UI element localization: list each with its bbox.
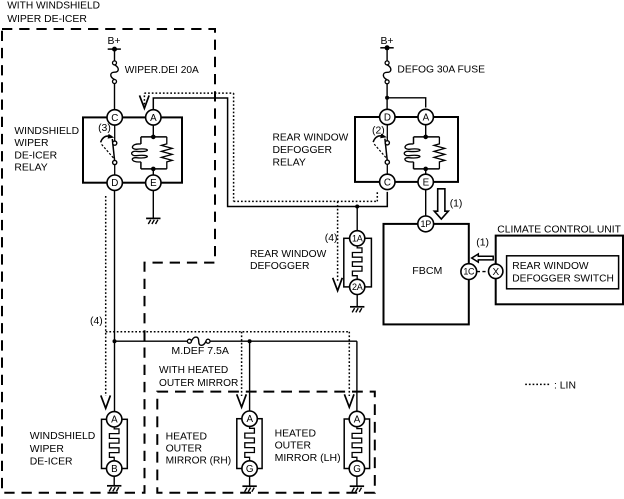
svg-text:B+: B+ [108, 36, 121, 47]
svg-text:G: G [246, 464, 253, 475]
svg-text:(1): (1) [476, 238, 489, 249]
svg-text:(3): (3) [98, 123, 111, 134]
svg-text:A: A [150, 113, 157, 124]
svg-text:1P: 1P [420, 219, 431, 229]
svg-text:WIPER: WIPER [14, 138, 49, 149]
svg-text:C: C [111, 113, 118, 124]
svg-text:MIRROR (RH): MIRROR (RH) [166, 456, 232, 467]
svg-text:1A: 1A [352, 233, 363, 243]
svg-text:A: A [111, 415, 118, 426]
svg-text:DE-ICER: DE-ICER [30, 456, 73, 467]
svg-text:WINDSHIELD: WINDSHIELD [30, 431, 96, 442]
svg-text:G: G [353, 464, 360, 475]
svg-text:DE-ICER: DE-ICER [14, 150, 57, 161]
svg-text:REAR WINDOW: REAR WINDOW [273, 133, 349, 144]
svg-text:C: C [384, 177, 391, 188]
svg-text:DEFOGGER: DEFOGGER [250, 261, 310, 272]
svg-text:WINDSHIELD: WINDSHIELD [14, 126, 79, 137]
svg-text:(4): (4) [90, 316, 103, 327]
svg-text:DEFOGGER SWITCH: DEFOGGER SWITCH [512, 274, 614, 285]
svg-text:E: E [150, 178, 157, 189]
svg-text:X: X [493, 267, 500, 278]
svg-text:HEATED: HEATED [275, 428, 316, 439]
svg-text:(1): (1) [450, 198, 463, 209]
svg-text:REAR WINDOW: REAR WINDOW [250, 249, 326, 260]
svg-text:E: E [423, 177, 430, 188]
svg-text:1C: 1C [463, 267, 475, 277]
svg-text:CLIMATE CONTROL UNIT: CLIMATE CONTROL UNIT [497, 224, 621, 235]
svg-text:A: A [354, 414, 361, 425]
svg-text:OUTER: OUTER [166, 444, 203, 455]
svg-text:M.DEF 7.5A: M.DEF 7.5A [171, 346, 229, 357]
svg-text:HEATED: HEATED [166, 431, 207, 442]
svg-text:D: D [384, 112, 391, 123]
svg-text:DEFOG 30A FUSE: DEFOG 30A FUSE [397, 64, 485, 75]
svg-text:OUTER MIRROR: OUTER MIRROR [159, 378, 239, 389]
svg-text:B+: B+ [381, 36, 394, 47]
svg-text:WIPER: WIPER [30, 444, 65, 455]
svg-text:2A: 2A [352, 282, 363, 292]
svg-text:REAR WINDOW: REAR WINDOW [512, 261, 588, 272]
svg-text:D: D [111, 178, 118, 189]
svg-text:(4): (4) [325, 233, 338, 244]
svg-text:RELAY: RELAY [273, 158, 306, 169]
svg-text:WITH WINDSHIELD: WITH WINDSHIELD [7, 1, 100, 12]
svg-text:: LIN: : LIN [554, 380, 576, 391]
svg-text:WITH HEATED: WITH HEATED [159, 365, 228, 376]
svg-text:A: A [423, 112, 430, 123]
svg-text:MIRROR (LH): MIRROR (LH) [275, 453, 341, 464]
svg-text:DEFOGGER: DEFOGGER [273, 145, 333, 156]
svg-text:RELAY: RELAY [14, 163, 47, 174]
svg-text:(2): (2) [372, 126, 385, 137]
svg-text:WIPER.DEI 20A: WIPER.DEI 20A [125, 65, 199, 76]
svg-text:B: B [111, 464, 118, 475]
svg-text:OUTER: OUTER [275, 441, 312, 452]
svg-text:A: A [246, 414, 253, 425]
svg-text:WIPER DE-ICER: WIPER DE-ICER [7, 14, 87, 25]
svg-text:FBCM: FBCM [412, 266, 442, 277]
